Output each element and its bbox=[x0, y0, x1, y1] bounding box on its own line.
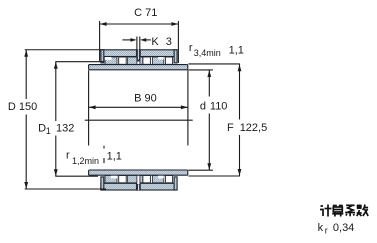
svg-text:D 150: D 150 bbox=[8, 101, 37, 113]
svg-text:K: K bbox=[151, 36, 159, 48]
svg-text:d: d bbox=[200, 100, 206, 112]
svg-text:3: 3 bbox=[166, 36, 172, 48]
svg-text:1: 1 bbox=[46, 126, 51, 136]
svg-text:3,4min: 3,4min bbox=[194, 48, 221, 58]
svg-text:r: r bbox=[66, 150, 70, 162]
svg-text:1,2min: 1,2min bbox=[72, 156, 99, 166]
svg-text:r: r bbox=[189, 42, 193, 54]
svg-text:110: 110 bbox=[210, 100, 228, 112]
svg-text:132: 132 bbox=[56, 122, 74, 134]
svg-text:r: r bbox=[325, 225, 328, 235]
svg-text:1,1: 1,1 bbox=[107, 151, 122, 163]
svg-text:C 71: C 71 bbox=[134, 7, 157, 19]
svg-text:1,1: 1,1 bbox=[229, 44, 244, 56]
svg-text:0,34: 0,34 bbox=[333, 222, 354, 234]
svg-text:122,5: 122,5 bbox=[240, 122, 268, 134]
svg-text:B 90: B 90 bbox=[134, 93, 157, 105]
svg-text:k: k bbox=[318, 222, 324, 234]
svg-text:F: F bbox=[227, 122, 234, 134]
